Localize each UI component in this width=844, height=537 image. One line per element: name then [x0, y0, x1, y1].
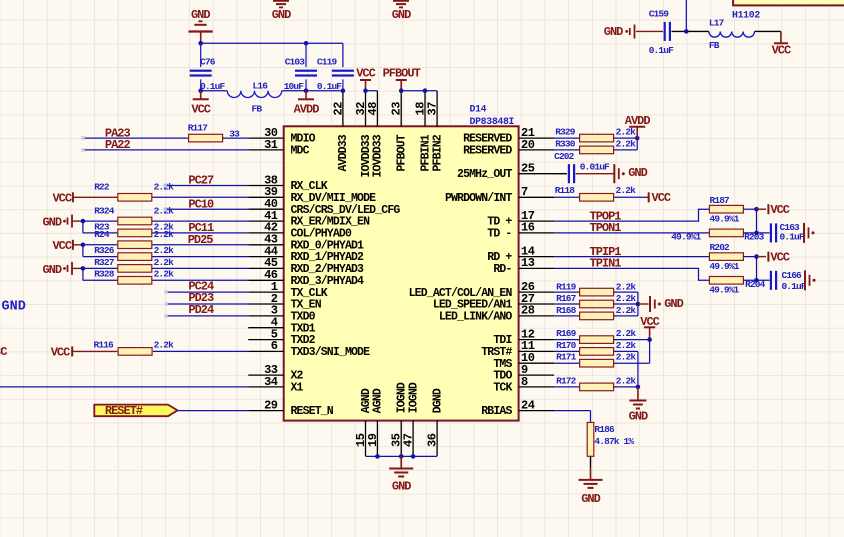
svg-text:CC: CC	[0, 345, 7, 359]
svg-text:R117: R117	[188, 123, 209, 134]
svg-text:PFBOUT: PFBOUT	[383, 66, 421, 80]
svg-text:TXD3/SNI_MODE: TXD3/SNI_MODE	[291, 346, 371, 359]
svg-text:49.9%1: 49.9%1	[710, 213, 740, 224]
svg-text:FB: FB	[252, 104, 263, 115]
svg-text:D14: D14	[470, 104, 487, 115]
svg-text:8: 8	[521, 375, 528, 389]
svg-text:34: 34	[264, 375, 278, 389]
svg-text:PD24: PD24	[188, 303, 214, 317]
svg-text:C76: C76	[200, 57, 216, 68]
svg-text:GND: GND	[2, 299, 26, 314]
svg-text:R119: R119	[556, 281, 577, 292]
svg-text:R24: R24	[94, 229, 110, 240]
svg-text:PFBOUT: PFBOUT	[396, 134, 409, 171]
svg-text:GND: GND	[604, 25, 623, 39]
svg-text:25: 25	[521, 162, 535, 176]
svg-text:C166: C166	[782, 270, 803, 281]
svg-text:RESERVED: RESERVED	[463, 145, 512, 158]
svg-text:MDC: MDC	[291, 145, 310, 158]
svg-text:DGND: DGND	[431, 388, 444, 413]
svg-text:VCC: VCC	[770, 203, 789, 217]
svg-text:R324: R324	[94, 205, 115, 216]
svg-text:R327: R327	[94, 257, 115, 268]
svg-text:29: 29	[264, 398, 278, 412]
svg-text:C202: C202	[554, 151, 575, 162]
svg-text:RESET#: RESET#	[105, 404, 143, 418]
svg-text:37: 37	[426, 102, 440, 116]
svg-text:TCK: TCK	[493, 382, 512, 395]
svg-text:2.2k: 2.2k	[616, 340, 637, 351]
svg-text:49.9%1: 49.9%1	[709, 284, 739, 295]
svg-text:R22: R22	[94, 182, 110, 193]
svg-text:VCC: VCC	[652, 191, 671, 205]
svg-text:AVDD33: AVDD33	[337, 134, 350, 171]
svg-text:31: 31	[264, 138, 278, 152]
svg-text:H1102: H1102	[732, 10, 760, 21]
svg-text:2.2k: 2.2k	[154, 257, 175, 268]
svg-text:R202: R202	[710, 242, 731, 253]
svg-text:R329: R329	[555, 127, 576, 138]
svg-text:VCC: VCC	[52, 192, 71, 206]
svg-text:2.2k: 2.2k	[154, 340, 175, 351]
svg-text:24: 24	[521, 398, 535, 412]
svg-text:IOVDD33: IOVDD33	[372, 134, 385, 177]
svg-text:0.1uF: 0.1uF	[780, 231, 805, 242]
svg-text:2.2k: 2.2k	[616, 375, 637, 386]
svg-text:2.2k: 2.2k	[616, 281, 637, 292]
svg-text:L16: L16	[253, 81, 269, 92]
svg-text:VCC: VCC	[356, 66, 375, 80]
svg-text:2.2k: 2.2k	[154, 229, 175, 240]
svg-text:AVDD: AVDD	[625, 114, 651, 128]
svg-text:VCC: VCC	[772, 43, 791, 57]
svg-text:RD-: RD-	[493, 263, 511, 276]
svg-text:13: 13	[521, 256, 535, 270]
svg-text:GND: GND	[392, 8, 411, 22]
svg-text:TD -: TD -	[487, 228, 511, 241]
svg-text:19: 19	[366, 433, 380, 447]
svg-text:23: 23	[390, 102, 404, 116]
svg-text:GND: GND	[392, 479, 411, 493]
svg-text:PWRDOWN/INT: PWRDOWN/INT	[445, 192, 513, 205]
svg-text:22: 22	[331, 102, 345, 116]
svg-text:R116: R116	[94, 340, 115, 351]
svg-text:R187: R187	[710, 195, 731, 206]
svg-text:28: 28	[521, 304, 535, 318]
svg-text:X1: X1	[291, 382, 304, 395]
svg-text:2.2k: 2.2k	[616, 305, 637, 316]
svg-text:AVDD: AVDD	[294, 103, 320, 117]
svg-text:R172: R172	[556, 375, 577, 386]
svg-text:R169: R169	[556, 328, 577, 339]
svg-text:R171: R171	[556, 352, 577, 363]
svg-text:GND: GND	[191, 8, 210, 22]
svg-text:C119: C119	[317, 57, 338, 68]
svg-text:49.9%1: 49.9%1	[710, 261, 740, 272]
svg-text:GND: GND	[272, 8, 291, 22]
svg-text:47: 47	[402, 433, 416, 447]
svg-text:GND: GND	[664, 297, 683, 311]
svg-text:C103: C103	[285, 57, 306, 68]
svg-text:RBIAS: RBIAS	[481, 405, 512, 418]
svg-text:2.2k: 2.2k	[616, 185, 637, 196]
svg-text:36: 36	[426, 433, 440, 447]
svg-text:GND: GND	[629, 410, 648, 424]
svg-text:R328: R328	[94, 269, 115, 280]
svg-text:AGND: AGND	[372, 388, 385, 413]
svg-text:0.01uF: 0.01uF	[580, 161, 610, 172]
svg-text:2.2k: 2.2k	[616, 127, 637, 138]
svg-text:25MHz_OUT: 25MHz_OUT	[457, 168, 512, 181]
svg-text:2.2k: 2.2k	[154, 245, 175, 256]
svg-text:GND: GND	[581, 492, 600, 506]
svg-text:FB: FB	[709, 40, 720, 51]
svg-text:PFBIN2: PFBIN2	[431, 134, 444, 171]
svg-text:2.2k: 2.2k	[616, 139, 637, 150]
svg-text:GND: GND	[628, 166, 647, 180]
svg-text:20: 20	[521, 138, 535, 152]
svg-text:R118: R118	[555, 185, 576, 196]
svg-text:IOGND: IOGND	[407, 382, 420, 413]
svg-text:GND: GND	[42, 263, 61, 277]
svg-text:R186: R186	[594, 424, 615, 435]
svg-text:VCC: VCC	[52, 239, 71, 253]
svg-text:2.2k: 2.2k	[616, 352, 637, 363]
svg-text:16: 16	[521, 221, 535, 235]
svg-text:RESET_N: RESET_N	[291, 405, 334, 418]
svg-text:VCC: VCC	[191, 103, 210, 117]
svg-text:R167: R167	[556, 293, 577, 304]
svg-text:R168: R168	[556, 305, 577, 316]
svg-text:DP83848I: DP83848I	[470, 116, 515, 127]
svg-text:LED_LINK/ANO: LED_LINK/ANO	[439, 311, 513, 324]
svg-text:PFBIN1: PFBIN1	[419, 134, 432, 171]
svg-text:VCC: VCC	[51, 346, 70, 360]
svg-text:2.2k: 2.2k	[616, 293, 637, 304]
svg-text:L17: L17	[709, 18, 725, 29]
svg-text:R330: R330	[555, 139, 576, 150]
svg-text:GND: GND	[42, 215, 61, 229]
svg-text:C159: C159	[649, 8, 670, 19]
svg-text:0.1uF: 0.1uF	[649, 45, 674, 56]
svg-text:49.9%1: 49.9%1	[671, 232, 701, 243]
svg-text:R326: R326	[94, 245, 115, 256]
svg-text:2.2k: 2.2k	[616, 328, 637, 339]
svg-text:2.2k: 2.2k	[154, 269, 175, 280]
svg-text:4.87k 1%: 4.87k 1%	[594, 436, 634, 447]
svg-text:VCC: VCC	[770, 251, 789, 265]
svg-text:48: 48	[366, 102, 380, 116]
svg-text:7: 7	[521, 185, 528, 199]
svg-text:6: 6	[271, 339, 278, 353]
svg-text:0.1uF: 0.1uF	[782, 281, 807, 292]
svg-text:R170: R170	[556, 340, 577, 351]
